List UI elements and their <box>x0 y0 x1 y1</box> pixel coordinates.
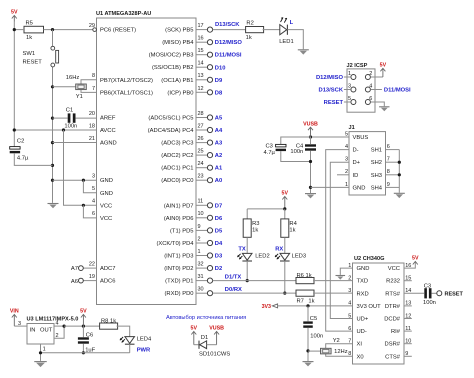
wire AVCC to 5V rail <box>14 129 96 131</box>
svg-text:4.7µ: 4.7µ <box>17 156 29 162</box>
wire D1 to VUSB <box>207 344 217 346</box>
junction C5 <box>306 304 309 307</box>
wire C6 to gnd line <box>82 344 84 353</box>
svg-text:DTR#: DTR# <box>385 304 401 310</box>
svg-text:D10: D10 <box>215 65 226 71</box>
U1 pin 28 (ADC5/SCL) PC5 <box>148 111 212 122</box>
LED1 <box>280 17 288 35</box>
svg-text:J2 ICSP: J2 ICSP <box>347 63 368 69</box>
junction C2 gnd <box>51 164 54 167</box>
wire R8 to LED4 <box>117 326 130 337</box>
wire LED4 to gnd line <box>129 344 131 353</box>
junction U3 OUT <box>63 325 66 328</box>
net arrow 3V3 <box>272 304 277 308</box>
svg-text:LED4: LED4 <box>137 336 152 342</box>
LED3 <box>275 253 290 261</box>
svg-text:U1 ATMEGA328P-AU: U1 ATMEGA328P-AU <box>96 11 151 17</box>
svg-text:1k: 1k <box>308 299 314 305</box>
svg-text:D7: D7 <box>215 203 222 209</box>
ground (U3) <box>34 362 47 368</box>
wire R3 to LED2 <box>246 237 248 253</box>
wire D13 to R2 <box>213 29 246 31</box>
svg-text:20: 20 <box>89 111 95 117</box>
label J2 ICSP <box>347 63 368 69</box>
net label D5 <box>215 228 223 234</box>
svg-text:A3: A3 <box>215 141 223 147</box>
svg-text:R232: R232 <box>386 279 400 285</box>
svg-text:RX: RX <box>275 246 283 252</box>
net label D13/SCK <box>215 22 240 28</box>
svg-text:C2: C2 <box>17 139 24 145</box>
net label D9 <box>215 78 223 84</box>
wire C4 to gnd <box>310 151 312 193</box>
svg-text:Y2: Y2 <box>333 338 340 344</box>
svg-text:RESET: RESET <box>445 292 464 298</box>
U1 pin 7 PB6(XTAL1/TOSC1) <box>92 86 153 97</box>
svg-text:4: 4 <box>56 321 59 327</box>
wire XI to Y2 <box>326 344 353 349</box>
svg-text:R6 1k: R6 1k <box>297 273 312 279</box>
power flag VUSB (J1) <box>303 121 318 137</box>
svg-text:VUSB: VUSB <box>209 326 224 332</box>
svg-text:AGND: AGND <box>100 141 117 147</box>
op chip U1 body <box>97 18 197 305</box>
svg-text:LED1: LED1 <box>279 39 294 45</box>
resistor R8 <box>100 323 118 329</box>
U2 pin 16 VCC <box>388 263 412 272</box>
U1 pin 14 (SS/OC1B) PB2 <box>152 61 213 72</box>
svg-text:5V: 5V <box>191 326 198 332</box>
svg-text:A2: A2 <box>215 153 222 159</box>
resistor R4 <box>281 219 289 237</box>
value C4 100n <box>290 149 303 155</box>
net label D12/MISO <box>215 40 243 46</box>
svg-text:1k: 1k <box>246 35 252 41</box>
svg-text:A1: A1 <box>215 166 223 172</box>
junction GND bracket <box>82 179 85 182</box>
svg-text:(RXD) PD0: (RXD) PD0 <box>165 291 194 297</box>
power flag 5V (J2) <box>380 63 387 78</box>
svg-text:7: 7 <box>92 86 95 92</box>
junction C3/C4 gnd <box>309 160 312 163</box>
svg-text:C3: C3 <box>265 144 272 150</box>
svg-text:(AIN0) PD6: (AIN0) PD6 <box>164 216 194 222</box>
ground (C5/Y2) <box>303 362 314 367</box>
connector J2 body <box>347 69 375 112</box>
svg-text:X0: X0 <box>357 354 364 360</box>
svg-text:(ADC2) PC2: (ADC2) PC2 <box>161 153 193 159</box>
power flag 5V (LED pullups) <box>282 191 289 209</box>
wire LED1 to gnd <box>287 30 303 50</box>
label C6 <box>86 332 93 338</box>
svg-text:PC6 (RESET): PC6 (RESET) <box>100 28 136 34</box>
U2 pin 9 CTS# <box>385 351 408 360</box>
wire J1 ID stub <box>337 174 349 176</box>
J1 pin 8 SH3 <box>371 169 400 179</box>
svg-text:25: 25 <box>198 149 204 155</box>
svg-text:J1: J1 <box>349 125 355 131</box>
junction GND pin3 <box>51 179 54 182</box>
label U1 ATMEGA328P-AU <box>96 11 151 17</box>
net label A4 <box>215 128 223 134</box>
svg-text:D12/MISO: D12/MISO <box>316 75 344 81</box>
U1 pin 13 (OC1A) PB1 <box>161 73 212 84</box>
svg-text:24: 24 <box>198 161 204 167</box>
svg-text:16: 16 <box>198 36 204 42</box>
label C3 (reset) <box>424 284 431 290</box>
ground (USB) <box>305 194 316 199</box>
wire U2 pin stub 12 <box>404 318 412 320</box>
connector J1 body <box>349 132 386 195</box>
wire R2 to LED1 <box>263 29 280 31</box>
svg-text:SH2: SH2 <box>371 160 382 166</box>
net label D10 <box>215 65 226 71</box>
svg-text:4.7µ: 4.7µ <box>263 150 275 156</box>
label C5 <box>310 316 317 322</box>
resistor R7 <box>296 290 314 296</box>
wire XTAL2 to Y1 <box>81 80 97 84</box>
ground (U2) <box>336 276 346 280</box>
net label A5 <box>215 115 223 121</box>
label SW1 RESET <box>23 59 43 65</box>
J1 pin 7 SH2 <box>371 157 400 167</box>
svg-text:100n: 100n <box>310 334 323 340</box>
svg-text:5V: 5V <box>380 63 387 69</box>
pin 4 U3 <box>56 321 59 327</box>
label J1 <box>349 125 355 131</box>
wire J2 pin5 <box>344 101 351 103</box>
svg-text:12: 12 <box>198 86 204 92</box>
power flag 5V (U2) <box>412 256 419 265</box>
svg-text:R2: R2 <box>246 20 253 26</box>
label LED4 <box>137 336 152 342</box>
wire C1 to AREF <box>76 117 97 119</box>
label OUT <box>40 327 53 333</box>
label D1 <box>201 335 208 341</box>
junction Y2 gnd <box>306 349 309 352</box>
svg-text:VIN: VIN <box>10 309 19 315</box>
svg-text:SH1: SH1 <box>371 148 382 154</box>
svg-text:A4: A4 <box>215 128 223 134</box>
power flag 5V (top-left) <box>11 10 18 22</box>
label C1 <box>66 108 73 114</box>
svg-text:D+: D+ <box>353 160 361 166</box>
wire AVCC branch to VCC pin4 <box>64 130 97 205</box>
svg-text:RXD: RXD <box>357 291 369 297</box>
svg-text:10: 10 <box>198 211 204 217</box>
svg-text:31: 31 <box>198 274 204 280</box>
U1 pin 2 (XCK/T0) PD4 <box>156 236 212 247</box>
wire RX line <box>213 292 296 294</box>
ground (USB shield) <box>394 193 405 198</box>
value R3 1k <box>252 228 258 234</box>
svg-text:32: 32 <box>198 261 204 267</box>
wire RTS# to C3 <box>404 292 424 294</box>
value C2 4.7u <box>17 156 29 162</box>
resistor R3 <box>243 219 251 237</box>
svg-text:LED3: LED3 <box>292 253 307 259</box>
junction AGND <box>51 141 54 144</box>
junction RESET node <box>51 28 54 31</box>
svg-text:AVCC: AVCC <box>100 128 116 134</box>
capacitor C6 <box>78 337 89 343</box>
svg-text:8: 8 <box>348 351 351 357</box>
svg-text:U3 LM1117IMPX-5.0: U3 LM1117IMPX-5.0 <box>27 316 79 322</box>
U2 pin 4 3V3 OUT <box>348 301 381 310</box>
wire gnd return line <box>41 352 130 354</box>
svg-text:PB7(XTAL2/TOSC2): PB7(XTAL2/TOSC2) <box>100 78 153 84</box>
U2 pin 15 R232 <box>386 276 411 285</box>
net label D7 <box>215 203 222 209</box>
svg-text:GND: GND <box>100 178 113 184</box>
resonator Y1 <box>76 84 87 90</box>
svg-text:D12/MISO: D12/MISO <box>215 40 243 46</box>
svg-text:4: 4 <box>369 84 372 90</box>
svg-text:RESET: RESET <box>23 59 43 65</box>
svg-text:UD-: UD- <box>357 329 367 335</box>
svg-text:R4: R4 <box>289 221 297 227</box>
wire J2 pin2 to 5V <box>370 76 383 78</box>
wire 5V to D1 <box>194 344 199 346</box>
U1 pin 22 ADC7 <box>89 261 116 272</box>
svg-text:(ICP) PB0: (ICP) PB0 <box>167 90 193 96</box>
svg-text:5: 5 <box>92 186 95 192</box>
junction J1 GND <box>309 186 312 189</box>
wire 5V to C6 <box>82 326 84 337</box>
svg-text:27: 27 <box>198 123 204 129</box>
wire J2 pin1 <box>344 76 351 78</box>
label R4 <box>289 221 297 227</box>
wire C3 to pad <box>432 292 437 294</box>
svg-text:GND: GND <box>357 266 370 272</box>
svg-text:14: 14 <box>198 61 204 67</box>
J1 pin 3 D+ <box>345 157 361 167</box>
U2 pin 7 XI <box>348 339 362 348</box>
label 12Hz <box>334 349 348 355</box>
U2 pin 1 GND <box>348 263 369 272</box>
svg-text:6: 6 <box>369 96 372 102</box>
label TX <box>238 246 246 252</box>
svg-text:XI: XI <box>357 342 363 348</box>
ground (J2) <box>379 107 389 112</box>
label R7 <box>297 299 304 305</box>
U1 pin 10 (AIN0) PD6 <box>164 211 213 222</box>
svg-text:R7: R7 <box>297 299 304 305</box>
svg-text:29: 29 <box>89 23 95 29</box>
wire to R3 <box>246 209 248 219</box>
label LED3 <box>292 253 307 259</box>
svg-text:4: 4 <box>348 301 351 307</box>
svg-text:D0/RX: D0/RX <box>225 287 242 293</box>
wire gnd to C1 <box>53 117 68 119</box>
J2 pins 3/4 <box>348 84 372 93</box>
power flag 5V (U3 out) <box>80 309 87 326</box>
label U3 LM1117MPX-5.0 <box>27 316 79 322</box>
svg-text:CTS#: CTS# <box>385 354 401 360</box>
wire D- to UD- <box>326 150 353 332</box>
J1 pin 4 D- <box>345 144 359 154</box>
svg-text:(T1) PD5: (T1) PD5 <box>170 228 194 234</box>
junction LED3/RX <box>283 292 286 295</box>
wire R7 to RXD <box>313 292 353 294</box>
svg-text:(ADC5/SCL) PC5: (ADC5/SCL) PC5 <box>148 116 193 122</box>
svg-text:1: 1 <box>348 71 351 77</box>
svg-text:(SCK) PB5: (SCK) PB5 <box>165 28 193 34</box>
svg-text:(ADC4/SDA) PC4: (ADC4/SDA) PC4 <box>148 128 195 134</box>
svg-text:(MOSI/OC2) PB3: (MOSI/OC2) PB3 <box>149 53 194 59</box>
pin 3 U3 <box>18 321 21 327</box>
svg-text:(AIN1) PD7: (AIN1) PD7 <box>164 203 194 209</box>
J1 pin 2 ID <box>345 169 358 179</box>
junction VUSB node <box>309 135 312 138</box>
junction C6 gnd <box>82 351 85 354</box>
junction VCC bracket <box>82 204 85 207</box>
svg-text:DCD#: DCD# <box>384 317 401 323</box>
wire USB shield to gnd <box>398 150 400 193</box>
U1 pin 17 (SCK) PB5 <box>165 23 212 34</box>
U1 pin 9 (T1) PD5 <box>170 224 213 235</box>
svg-text:OUT: OUT <box>40 327 53 333</box>
U1 pin 26 (ADC3) PC3 <box>161 136 212 147</box>
resistor R6 <box>296 278 314 284</box>
wire R4 to LED3 <box>284 237 286 253</box>
U1 pin 23 (ADC0) PC0 <box>161 174 212 185</box>
junction LED2/TX <box>246 279 249 282</box>
U1 pin 3 GND <box>92 174 113 185</box>
J2 pins 5/6 <box>348 96 372 105</box>
wire 3V3 to C5 <box>307 306 309 321</box>
svg-text:3: 3 <box>348 84 351 90</box>
svg-text:D-: D- <box>353 148 359 154</box>
node RESET pad <box>437 291 442 296</box>
wire AGND to gnd rail <box>53 142 97 144</box>
wire U2 pin stub 10 <box>404 343 412 345</box>
svg-text:30: 30 <box>198 287 204 293</box>
switch SW1 <box>51 30 59 87</box>
LED2 <box>237 253 252 261</box>
net label 3V3 <box>262 304 271 310</box>
svg-text:1k: 1k <box>252 228 258 234</box>
net label D8 <box>215 90 223 96</box>
wire R6 to TXD <box>313 280 353 282</box>
svg-text:5: 5 <box>348 96 351 102</box>
wire U2 pin stub 15 <box>404 280 412 282</box>
wire GND pin3 to rail <box>53 179 97 181</box>
wire Y1 to gnd rail <box>53 86 76 88</box>
svg-text:1k: 1k <box>26 35 32 41</box>
value C1 100n <box>64 124 77 130</box>
svg-text:(ADC3) PC3: (ADC3) PC3 <box>161 141 193 147</box>
svg-text:D1/TX: D1/TX <box>225 274 242 280</box>
value C6 1uF <box>85 347 95 353</box>
svg-text:A7: A7 <box>71 266 78 272</box>
svg-text:1: 1 <box>43 346 46 352</box>
capacitor C1 <box>68 113 76 122</box>
svg-text:22: 22 <box>89 261 95 267</box>
U2 pin 10 DSR# <box>385 339 412 348</box>
label LED2 <box>255 253 270 259</box>
wire R5 to PC6 RESET <box>44 29 97 31</box>
svg-text:11: 11 <box>198 199 204 205</box>
svg-text:3V3: 3V3 <box>262 304 271 310</box>
J1 pin 5 VBUS <box>345 131 368 141</box>
junction AVCC branch <box>62 128 65 131</box>
svg-text:A0: A0 <box>215 178 222 184</box>
svg-text:(TXD) PD1: (TXD) PD1 <box>165 279 193 285</box>
value R4 1k <box>289 228 295 234</box>
U1 pin 21 AGND <box>89 136 117 147</box>
net label D2 <box>215 266 222 272</box>
svg-text:2: 2 <box>56 333 59 339</box>
svg-text:VCC: VCC <box>100 203 112 209</box>
U2 pin 12 DCD# <box>384 313 411 322</box>
svg-text:C1: C1 <box>66 108 73 114</box>
label C4 <box>296 144 304 150</box>
junction AVCC/5V <box>13 128 16 131</box>
svg-text:AREF: AREF <box>100 116 116 122</box>
label R8 1k <box>101 318 116 324</box>
wire to R4 <box>284 209 286 219</box>
svg-text:RI#: RI# <box>391 329 401 335</box>
wire GND rail left <box>52 87 54 203</box>
svg-text:C3: C3 <box>424 284 431 290</box>
svg-text:D4: D4 <box>215 241 223 247</box>
svg-text:D5: D5 <box>215 228 223 234</box>
capacitor C3 (reset) <box>424 288 431 298</box>
label C2 <box>17 139 24 145</box>
U2 pin 14 RTS# <box>385 288 411 297</box>
svg-text:D11/MOSI: D11/MOSI <box>384 88 411 94</box>
wire U2 pin stub 11 <box>404 330 412 332</box>
svg-text:6: 6 <box>92 211 95 217</box>
note auto power source <box>166 315 246 321</box>
svg-text:2: 2 <box>198 236 201 242</box>
svg-text:(SS/OC1B) PB2: (SS/OC1B) PB2 <box>152 65 194 71</box>
svg-text:SW1: SW1 <box>23 51 36 57</box>
svg-text:26: 26 <box>198 136 204 142</box>
svg-text:ADC6: ADC6 <box>100 279 115 285</box>
U1 pin 25 (ADC2) PC2 <box>161 149 212 160</box>
net label D3 <box>215 254 223 260</box>
resistor R5 <box>24 26 44 33</box>
junction 5V/C6 <box>82 325 85 328</box>
label R6 1k <box>297 273 312 279</box>
wire C5 to gnd <box>307 328 309 361</box>
chip U2 body <box>353 263 405 364</box>
svg-text:1: 1 <box>198 249 201 255</box>
junction SH3 <box>398 173 401 176</box>
U1 pin 29 PC6 (RESET) <box>89 23 136 34</box>
svg-text:U2 CH340G: U2 CH340G <box>354 256 384 262</box>
svg-text:5V: 5V <box>412 256 419 262</box>
svg-text:5V: 5V <box>80 309 87 315</box>
svg-text:A6: A6 <box>71 279 78 285</box>
junction R4 top <box>283 207 286 210</box>
U2 pin 6 UD- <box>348 326 367 335</box>
svg-text:TXD: TXD <box>357 279 369 285</box>
ground (left rail) <box>48 204 59 209</box>
svg-text:8: 8 <box>92 73 95 79</box>
svg-text:ADC7: ADC7 <box>100 266 115 272</box>
svg-text:A5: A5 <box>215 115 223 121</box>
U1 pin 1 (INT1) PD3 <box>164 249 212 260</box>
diode D1 <box>199 341 207 349</box>
label SD101CWS <box>199 351 230 357</box>
U1 pin 18 AVCC <box>89 123 116 134</box>
U1 pin 27 (ADC4/SDA) PC4 <box>148 123 213 134</box>
svg-text:RESET: RESET <box>324 100 344 106</box>
value C3 4.7u <box>263 150 275 156</box>
